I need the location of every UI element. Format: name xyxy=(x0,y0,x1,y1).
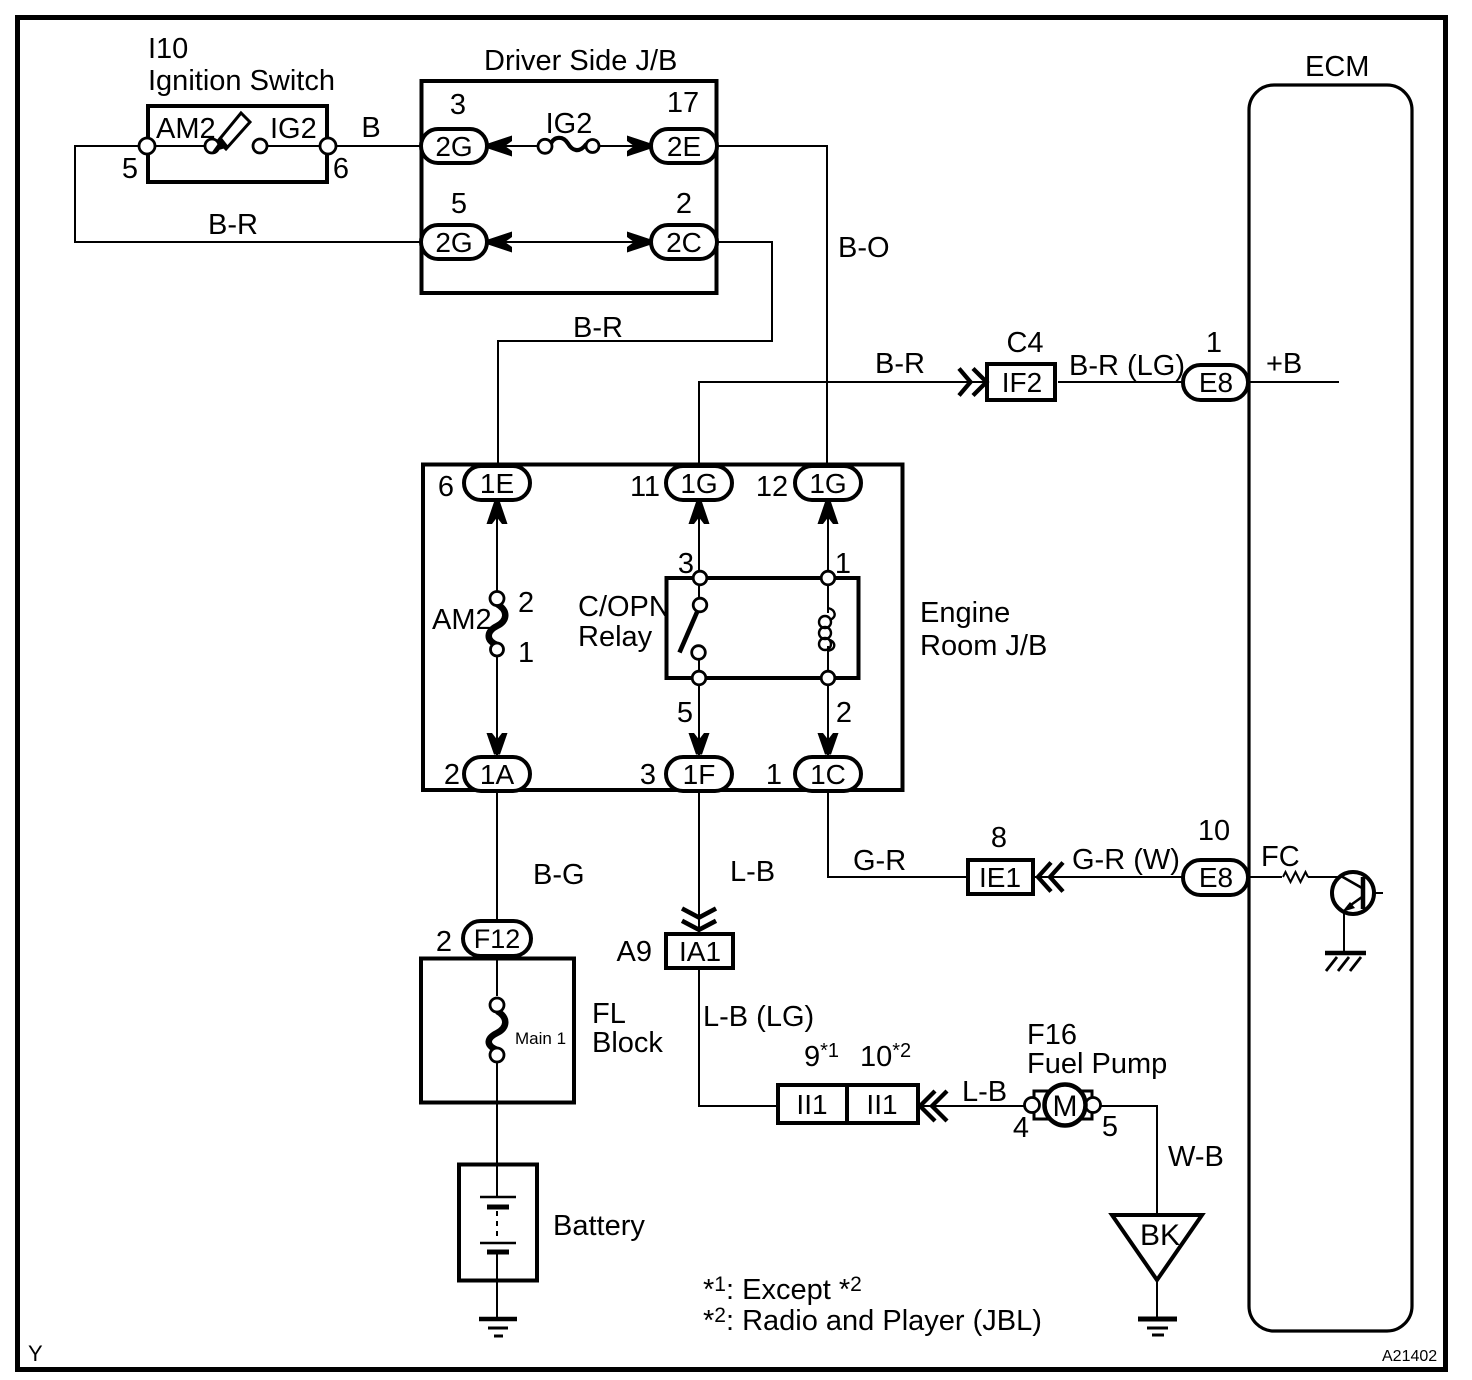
svg-text:IG2: IG2 xyxy=(270,113,317,145)
svg-text:Block: Block xyxy=(592,1027,663,1059)
svg-text:Room J/B: Room J/B xyxy=(920,630,1047,662)
svg-text:B-R (LG): B-R (LG) xyxy=(1069,350,1185,382)
svg-text:Relay: Relay xyxy=(578,621,653,653)
svg-text:AM2: AM2 xyxy=(432,604,492,636)
svg-text:3: 3 xyxy=(450,89,466,121)
svg-text:6: 6 xyxy=(438,471,454,503)
svg-text:Driver Side J/B: Driver Side J/B xyxy=(484,45,677,77)
svg-text:F12: F12 xyxy=(474,924,521,954)
svg-text:B-O: B-O xyxy=(838,232,890,264)
svg-text:AM2: AM2 xyxy=(156,113,216,145)
svg-text:A21402: A21402 xyxy=(1382,1348,1437,1365)
svg-text:5: 5 xyxy=(677,697,693,729)
svg-text:E8: E8 xyxy=(1199,367,1233,398)
svg-text:1: 1 xyxy=(835,548,851,580)
svg-text:Y: Y xyxy=(28,1341,43,1366)
svg-text:3: 3 xyxy=(678,548,694,580)
svg-text:3: 3 xyxy=(640,759,656,791)
svg-text:1: 1 xyxy=(1206,327,1222,359)
svg-text:11: 11 xyxy=(630,471,660,503)
svg-text:1C: 1C xyxy=(810,759,846,790)
svg-text:2G: 2G xyxy=(435,227,472,258)
svg-text:1E: 1E xyxy=(480,468,514,499)
svg-text:B-R: B-R xyxy=(875,348,925,380)
svg-text:2: 2 xyxy=(836,697,852,729)
svg-text:Main 1: Main 1 xyxy=(515,1029,566,1048)
svg-text:Ignition Switch: Ignition Switch xyxy=(148,65,335,97)
svg-text:FL: FL xyxy=(592,998,626,1030)
svg-text:M: M xyxy=(1053,1090,1078,1123)
svg-text:B-G: B-G xyxy=(533,859,585,891)
svg-text:1A: 1A xyxy=(480,759,515,790)
svg-text:2: 2 xyxy=(436,926,452,958)
svg-text:G-R: G-R xyxy=(853,845,906,877)
svg-text:2: 2 xyxy=(676,188,692,220)
svg-text:IG2: IG2 xyxy=(546,108,593,140)
svg-text:II1: II1 xyxy=(796,1089,827,1120)
svg-text:IF2: IF2 xyxy=(1002,367,1042,398)
svg-text:2: 2 xyxy=(518,587,534,619)
svg-text:B-R: B-R xyxy=(573,312,623,344)
svg-text:IA1: IA1 xyxy=(679,936,721,967)
svg-text:1F: 1F xyxy=(683,759,716,790)
svg-text:1: 1 xyxy=(518,637,534,669)
svg-text:G-R (W): G-R (W) xyxy=(1072,844,1180,876)
svg-text:2G: 2G xyxy=(435,131,472,162)
svg-text:B: B xyxy=(361,112,380,144)
svg-text:C/OPN: C/OPN xyxy=(578,591,670,623)
svg-text:Engine: Engine xyxy=(920,597,1010,629)
svg-text:2: 2 xyxy=(444,759,460,791)
svg-text:2C: 2C xyxy=(666,227,702,258)
svg-text:E8: E8 xyxy=(1199,862,1233,893)
svg-text:Battery: Battery xyxy=(553,1210,645,1242)
svg-text:10: 10 xyxy=(1198,815,1230,847)
svg-text:2E: 2E xyxy=(667,131,701,162)
svg-text:*2: Radio and Player (JBL): *2: Radio and Player (JBL) xyxy=(703,1304,1042,1337)
svg-text:5: 5 xyxy=(122,153,138,185)
svg-text:C4: C4 xyxy=(1006,327,1043,359)
svg-text:ECM: ECM xyxy=(1305,51,1369,83)
svg-text:+B: +B xyxy=(1266,348,1302,380)
svg-text:17: 17 xyxy=(667,87,699,119)
svg-text:II1: II1 xyxy=(866,1089,897,1120)
svg-text:1G: 1G xyxy=(680,468,717,499)
svg-text:5: 5 xyxy=(1102,1111,1118,1143)
svg-text:Fuel Pump: Fuel Pump xyxy=(1027,1048,1167,1080)
svg-text:I10: I10 xyxy=(148,33,188,65)
svg-text:8: 8 xyxy=(991,822,1007,854)
svg-text:B-R: B-R xyxy=(208,209,258,241)
svg-text:L-B: L-B xyxy=(730,856,775,888)
svg-text:BK: BK xyxy=(1140,1219,1180,1252)
svg-text:5: 5 xyxy=(451,188,467,220)
svg-text:1: 1 xyxy=(766,759,782,791)
svg-text:1G: 1G xyxy=(809,468,846,499)
svg-text:A9: A9 xyxy=(617,936,652,968)
svg-text:12: 12 xyxy=(756,471,788,503)
svg-text:F16: F16 xyxy=(1027,1019,1077,1051)
svg-text:IE1: IE1 xyxy=(979,862,1021,893)
svg-text:6: 6 xyxy=(333,153,349,185)
svg-text:*1: Except *2: *1: Except *2 xyxy=(703,1273,862,1306)
svg-text:L-B: L-B xyxy=(962,1076,1007,1108)
svg-text:FC: FC xyxy=(1261,841,1300,873)
svg-text:4: 4 xyxy=(1013,1112,1029,1144)
svg-text:W-B: W-B xyxy=(1168,1141,1224,1173)
svg-text:L-B (LG): L-B (LG) xyxy=(703,1001,814,1033)
